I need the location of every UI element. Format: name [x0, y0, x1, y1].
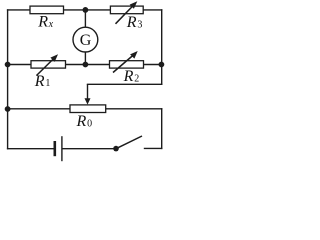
wire row2 left: [8, 64, 31, 66]
svg-text:3: 3: [137, 19, 142, 30]
wire R1 to node B: [66, 64, 110, 66]
wire switch fixed contact: [145, 147, 162, 149]
resistor R1: [31, 61, 66, 68]
wire row3 left: [8, 108, 70, 110]
potentiometer R0: [70, 105, 106, 113]
wire R0 to right: [106, 108, 162, 110]
svg-text:R: R: [76, 113, 87, 130]
node A junction dot: [83, 7, 89, 13]
left junction dot row2: [5, 62, 11, 68]
slider arrow of R0: [85, 84, 91, 104]
svg-text:G: G: [80, 32, 92, 49]
wire R2 to right dot: [144, 64, 162, 66]
arrow of R3: [116, 1, 138, 24]
wire G to node B: [84, 52, 86, 65]
battery: [55, 136, 62, 161]
wire node A to G: [84, 10, 86, 28]
label R3: [126, 14, 143, 31]
wire R3 to top-right corner: [143, 9, 162, 11]
wire right vertical upper: [161, 10, 163, 84]
arrow of R2: [113, 51, 138, 73]
svg-text:2: 2: [134, 73, 139, 84]
galvanometer U G: [73, 27, 98, 52]
wire right vertical lower: [161, 109, 163, 149]
resistor R3: [110, 6, 143, 14]
svg-text:R: R: [126, 14, 137, 31]
svg-text:R: R: [123, 68, 134, 85]
svg-text:0: 0: [87, 118, 92, 129]
svg-text:R: R: [34, 73, 45, 90]
switch S: [113, 136, 142, 151]
wire top-left to Rx: [8, 9, 30, 11]
arrow of R1: [37, 54, 59, 75]
label Rx: [37, 14, 53, 31]
right junction dot row2: [159, 62, 165, 68]
label R0: [76, 113, 93, 130]
wire Rx to node A: [64, 9, 111, 11]
wire left vertical: [7, 10, 9, 149]
wire bottom-left to battery: [8, 148, 54, 150]
left junction dot row3: [5, 106, 11, 112]
svg-text:R: R: [37, 14, 48, 31]
label R1: [34, 73, 51, 90]
node B junction dot: [83, 62, 89, 68]
svg-text:x: x: [48, 19, 54, 30]
label R2: [123, 68, 140, 85]
svg-text:1: 1: [45, 78, 50, 89]
wire slider horizontal: [88, 83, 162, 85]
resistor R2: [110, 61, 144, 68]
wire battery to switch: [63, 148, 117, 150]
resistor Rx: [30, 6, 64, 14]
